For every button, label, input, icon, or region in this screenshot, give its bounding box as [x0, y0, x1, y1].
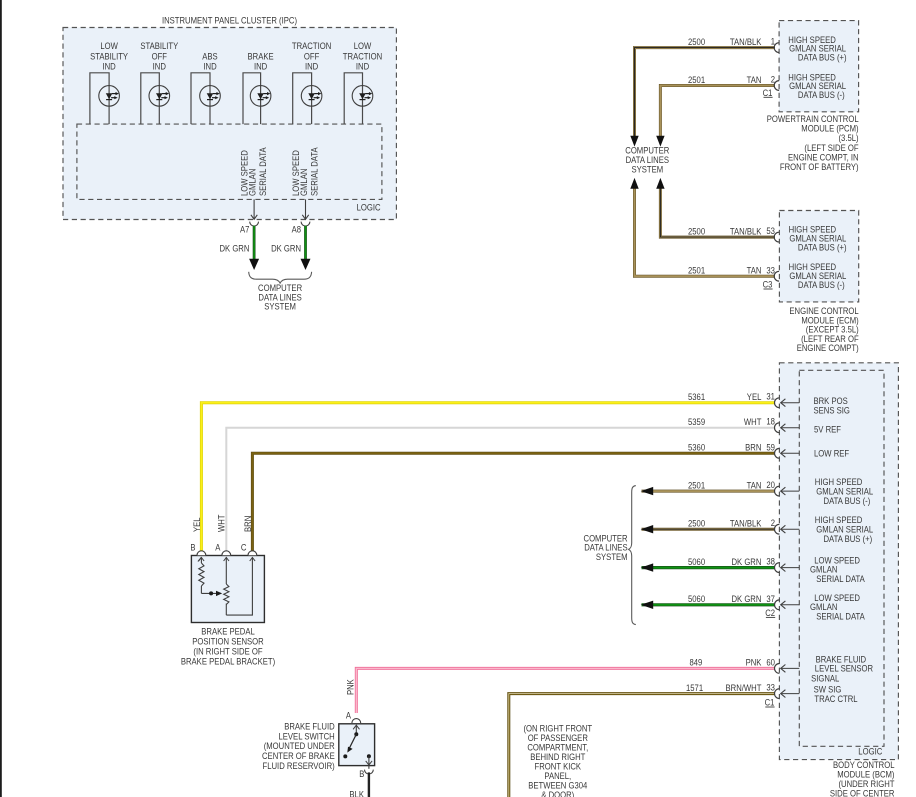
wire 2500 TAN/BLK high speed GMLAN to BCM pin 2	[641, 518, 800, 534]
svg-text:A7: A7	[240, 224, 249, 234]
svg-text:1: 1	[771, 37, 775, 47]
svg-text:DATA BUS (+): DATA BUS (+)	[798, 243, 847, 253]
switch contacts and lever	[343, 725, 372, 765]
label BRK POS SENS SIG (BCM pin 31)	[814, 396, 851, 416]
svg-text:2500: 2500	[688, 37, 705, 47]
svg-text:31: 31	[766, 392, 775, 402]
connector C1 label (PCM)	[763, 88, 773, 98]
label HIGH SPEED GMLAN SERIAL DATA BUS (-) (ECM pin 33)	[789, 262, 847, 290]
svg-text:GMLAN SERIAL: GMLAN SERIAL	[816, 525, 873, 535]
svg-text:C2: C2	[765, 608, 775, 618]
label YEL (vertical)	[192, 517, 202, 532]
svg-text:2501: 2501	[688, 266, 705, 276]
svg-text:ENGINE COMPT): ENGINE COMPT)	[797, 343, 859, 353]
svg-text:5359: 5359	[688, 417, 705, 427]
svg-text:LOGIC: LOGIC	[858, 747, 883, 757]
svg-text:POWERTRAIN CONTROL: POWERTRAIN CONTROL	[767, 114, 859, 124]
svg-text:TAN: TAN	[747, 266, 762, 276]
label HIGH SPEED GMLAN SERIAL DATA BUS (+) (PCM pin 1)	[788, 35, 846, 63]
wire 849 PNK brake fluid level switch to BCM pin 60	[356, 657, 799, 713]
svg-text:WHT: WHT	[217, 514, 227, 532]
label POWERTRAIN CONTROL MODULE (PCM) caption	[767, 114, 859, 172]
svg-text:TAN: TAN	[747, 75, 762, 85]
svg-text:DK GRN: DK GRN	[732, 594, 762, 604]
wire 5361 YEL brake pedal position sensor signal to BCM pin 31	[201, 392, 799, 551]
node COMPUTER DATA LINES SYSTEM (mid page)	[584, 533, 628, 562]
svg-text:COMPUTER: COMPUTER	[625, 146, 669, 156]
svg-text:SYSTEM: SYSTEM	[264, 301, 296, 311]
label HIGH SPEED GMLAN SERIAL DATA BUS (-) (PCM pin 2)	[788, 72, 846, 100]
wire 2501 TAN high speed GMLAN to BCM pin 20	[641, 480, 800, 496]
svg-text:IND: IND	[305, 61, 318, 71]
svg-text:2: 2	[771, 75, 775, 85]
svg-text:C3: C3	[763, 280, 773, 290]
svg-text:33: 33	[766, 683, 775, 693]
wire 2500 TAN/BLK from ECM pin 53 to computer data lines	[656, 178, 779, 242]
svg-text:BRN/WHT: BRN/WHT	[726, 683, 762, 693]
svg-text:TAN: TAN	[747, 480, 762, 490]
label LOW REF (BCM pin 59)	[814, 448, 850, 458]
svg-text:SERIAL DATA: SERIAL DATA	[816, 574, 865, 584]
wire 2500 TAN/BLK from PCM pin 1 to computer data lines	[630, 37, 779, 147]
svg-text:OFF: OFF	[152, 51, 168, 61]
svg-text:IND: IND	[356, 61, 369, 71]
svg-text:IND: IND	[153, 61, 166, 71]
svg-text:SENS SIG: SENS SIG	[814, 406, 851, 416]
svg-text:A: A	[215, 542, 220, 552]
svg-text:38: 38	[766, 557, 775, 567]
connector C1 label (BCM)	[765, 698, 775, 708]
wire DK GRN from A8 to COMPUTER DATA LINES SYSTEM	[271, 226, 310, 270]
label LOW SPEED GMLAN SERIAL DATA (left, vertical, IPC)	[240, 147, 269, 196]
module BCM BODY CONTROL MODULE outer box	[779, 363, 898, 760]
svg-text:59: 59	[766, 442, 775, 452]
border frame left edge	[0, 0, 2, 797]
svg-text:BRAKE FLUID: BRAKE FLUID	[284, 722, 335, 732]
svg-text:GMLAN: GMLAN	[810, 602, 837, 612]
svg-text:INSTRUMENT PANEL CLUSTER (IPC): INSTRUMENT PANEL CLUSTER (IPC)	[162, 15, 297, 25]
label LOW SPEED GMLAN SERIAL DATA (BCM pin 38)	[810, 556, 865, 585]
svg-text:TRACTION: TRACTION	[292, 41, 331, 51]
svg-text:DATA LINES: DATA LINES	[626, 155, 670, 165]
logic block inner dashed box of IPC	[77, 124, 382, 199]
svg-text:37: 37	[766, 594, 775, 604]
svg-text:5V REF: 5V REF	[814, 424, 842, 434]
svg-text:BRN: BRN	[745, 443, 761, 453]
label BRAKE FLUID LEVEL SENSOR SIGNAL (BCM pin 60)	[811, 654, 873, 683]
label WHT (vertical)	[217, 514, 227, 532]
svg-text:33: 33	[766, 265, 775, 275]
svg-text:LEVEL SWITCH: LEVEL SWITCH	[279, 731, 335, 741]
svg-text:DK GRN: DK GRN	[271, 244, 301, 254]
indicator lamp LOW STABILITY IND	[90, 41, 128, 124]
svg-text:SW SIG: SW SIG	[814, 684, 842, 694]
svg-text:& DOOR): & DOOR)	[541, 790, 574, 797]
svg-text:5361: 5361	[688, 392, 705, 402]
brace COMPUTER DATA LINES SYSTEM (BCM side)	[629, 486, 636, 625]
label PNK (vertical)	[346, 679, 356, 695]
svg-text:849: 849	[690, 658, 703, 668]
label splice location (ON RIGHT FRONT OF PASSENGER COMPARTMENT...)	[523, 724, 592, 797]
wiper arrow and junction of potentiometer	[201, 591, 222, 596]
svg-text:18: 18	[766, 417, 775, 427]
wire pin A8 exit from IPC logic	[292, 199, 310, 234]
label BRAKE PEDAL POSITION SENSOR caption	[181, 627, 275, 667]
module PCM POWERTRAIN CONTROL MODULE box	[779, 21, 859, 112]
svg-text:A: A	[346, 711, 351, 721]
svg-text:2: 2	[771, 518, 775, 528]
svg-text:5060: 5060	[688, 594, 705, 604]
svg-text:DATA BUS (-): DATA BUS (-)	[824, 496, 871, 506]
wire 2501 TAN from ECM pin 33 to computer data lines	[630, 178, 779, 281]
label BRN (vertical)	[243, 516, 253, 532]
svg-text:LEVEL SENSOR: LEVEL SENSOR	[815, 664, 873, 674]
label ENGINE CONTROL MODULE (ECM) caption	[789, 306, 859, 353]
svg-text:BRAKE PEDAL: BRAKE PEDAL	[201, 627, 255, 637]
svg-text:DK GRN: DK GRN	[220, 244, 250, 254]
resistor R2 potentiometer element (pin A branch)	[224, 557, 229, 615]
svg-text:MODULE (PCM): MODULE (PCM)	[801, 124, 858, 134]
svg-text:OFF: OFF	[304, 51, 320, 61]
indicator lamp LOW TRACTION IND	[343, 41, 382, 124]
svg-text:BRAKE PEDAL BRACKET): BRAKE PEDAL BRACKET)	[181, 656, 275, 666]
svg-text:STABILITY: STABILITY	[140, 41, 178, 51]
svg-text:LOW: LOW	[100, 41, 118, 51]
svg-text:C1: C1	[763, 88, 773, 98]
svg-text:C: C	[241, 542, 247, 552]
svg-text:2501: 2501	[688, 480, 705, 490]
svg-text:B: B	[359, 769, 364, 779]
svg-text:YEL: YEL	[192, 517, 202, 532]
module U1 INSTRUMENT PANEL CLUSTER (IPC) outer box	[63, 28, 396, 220]
svg-text:C1: C1	[765, 698, 775, 708]
svg-text:BRAKE: BRAKE	[248, 51, 274, 61]
indicator lamp STABILITY OFF IND	[140, 41, 178, 124]
label LOW SPEED GMLAN SERIAL DATA (right, vertical, IPC)	[291, 147, 320, 196]
connector pin A of brake pedal position sensor	[215, 542, 230, 555]
wire pin A7 exit from IPC logic	[240, 199, 259, 234]
svg-text:SERIAL DATA: SERIAL DATA	[310, 147, 320, 196]
svg-text:POSITION SENSOR: POSITION SENSOR	[192, 637, 264, 647]
svg-text:LOGIC: LOGIC	[357, 203, 382, 213]
module ECM ENGINE CONTROL MODULE box	[779, 211, 858, 302]
label BRAKE FLUID LEVEL SWITCH caption	[262, 722, 335, 771]
wire 5060 DK GRN low speed GMLAN to BCM pin 37	[641, 594, 800, 610]
svg-text:TRACTION: TRACTION	[343, 51, 382, 61]
wire bottom link to pin C inside sensor	[226, 557, 255, 615]
svg-text:LOW REF: LOW REF	[814, 448, 850, 458]
svg-text:GMLAN SERIAL: GMLAN SERIAL	[816, 487, 873, 497]
label LOW SPEED GMLAN SERIAL DATA (BCM pin 37)	[810, 593, 865, 622]
svg-text:(LEFT SIDE OF: (LEFT SIDE OF	[804, 143, 859, 153]
svg-text:FRONT OF BATTERY): FRONT OF BATTERY)	[780, 162, 859, 172]
svg-text:TAN/BLK: TAN/BLK	[730, 519, 762, 529]
svg-text:WHT: WHT	[744, 417, 762, 427]
svg-text:DATA BUS (+): DATA BUS (+)	[824, 534, 873, 544]
svg-text:DATA BUS (+): DATA BUS (+)	[798, 52, 847, 62]
svg-text:HIGH SPEED: HIGH SPEED	[815, 477, 863, 487]
svg-text:5360: 5360	[688, 443, 705, 453]
svg-text:HIGH SPEED: HIGH SPEED	[815, 515, 863, 525]
wire BLK from switch pin B (to ground, off page)	[349, 766, 369, 797]
node COMPUTER DATA LINES SYSTEM (between PCM and ECM)	[625, 146, 669, 175]
node COMPUTER DATA LINES SYSTEM (bottom of IPC)	[258, 283, 302, 311]
indicator lamp TRACTION OFF IND	[292, 41, 331, 124]
indicator lamp BRAKE IND	[243, 51, 274, 124]
svg-text:TRAC CTRL: TRAC CTRL	[814, 694, 857, 704]
svg-text:IND: IND	[102, 61, 115, 71]
svg-text:2501: 2501	[688, 75, 705, 85]
wire 5360 BRN low reference to BCM pin 59	[252, 442, 799, 550]
brace under A7/A8 wires	[249, 272, 312, 283]
svg-text:(3.5L): (3.5L)	[839, 133, 859, 143]
svg-text:GMLAN: GMLAN	[810, 565, 837, 575]
wire 2501 TAN from PCM pin 2 to computer data lines	[656, 75, 779, 147]
wire DK GRN from A7 to COMPUTER DATA LINES SYSTEM	[220, 226, 260, 270]
wire 1571 BRN/WHT traction control switch signal to BCM pin 33	[509, 683, 800, 797]
svg-text:SERIAL DATA: SERIAL DATA	[816, 612, 865, 622]
connector C2 label (BCM)	[765, 608, 775, 618]
label 5V REF (BCM pin 18)	[814, 424, 842, 434]
switch S1 BRAKE FLUID LEVEL SWITCH box	[339, 724, 375, 766]
svg-text:TAN/BLK: TAN/BLK	[730, 37, 762, 47]
svg-text:CENTER OF BRAKE: CENTER OF BRAKE	[262, 751, 335, 761]
svg-text:(IN RIGHT SIDE OF: (IN RIGHT SIDE OF	[193, 646, 263, 656]
label SW SIG TRAC CTRL (BCM pin 33)	[814, 684, 858, 704]
label HIGH SPEED GMLAN SERIAL DATA BUS (+) (ECM pin 53)	[789, 224, 847, 252]
svg-text:DATA BUS (-): DATA BUS (-)	[798, 90, 845, 100]
svg-text:2500: 2500	[688, 519, 705, 529]
svg-text:DATA BUS (-): DATA BUS (-)	[798, 280, 845, 290]
svg-text:PNK: PNK	[746, 658, 762, 668]
svg-text:BLK: BLK	[349, 789, 364, 797]
svg-text:5060: 5060	[688, 557, 705, 567]
label BODY CONTROL MODULE (BCM) caption	[830, 760, 895, 797]
wire 5359 WHT 5V reference to BCM pin 18	[226, 417, 799, 551]
svg-text:GMLAN: GMLAN	[248, 169, 258, 196]
svg-text:TAN/BLK: TAN/BLK	[730, 227, 762, 237]
svg-text:DK GRN: DK GRN	[732, 557, 762, 567]
sensor B24 BRAKE PEDAL POSITION SENSOR box	[191, 556, 264, 623]
svg-text:SYSTEM: SYSTEM	[596, 552, 628, 562]
svg-text:LOW: LOW	[354, 41, 372, 51]
label LOGIC (BCM)	[858, 747, 883, 757]
svg-text:YEL: YEL	[747, 392, 762, 402]
label INSTRUMENT PANEL CLUSTER (IPC)	[162, 15, 297, 25]
connector pin B of brake fluid level switch	[359, 769, 373, 779]
connector pin C of brake pedal position sensor	[241, 542, 257, 555]
svg-text:1571: 1571	[686, 683, 703, 693]
svg-text:GMLAN: GMLAN	[299, 169, 309, 196]
svg-text:SERIAL DATA: SERIAL DATA	[258, 147, 268, 196]
svg-text:SIGNAL: SIGNAL	[811, 674, 839, 684]
svg-text:20: 20	[766, 480, 775, 490]
connector pin B of brake pedal position sensor	[190, 542, 205, 555]
svg-text:BRN: BRN	[243, 516, 253, 532]
label LOGIC (IPC)	[357, 203, 382, 213]
svg-text:IND: IND	[203, 61, 216, 71]
svg-text:ENGINE COMPT, IN: ENGINE COMPT, IN	[788, 152, 859, 162]
logic block inner dashed box of BCM	[799, 370, 884, 746]
svg-text:FLUID RESERVOIR): FLUID RESERVOIR)	[263, 761, 335, 771]
resistor R1 potentiometer element (pin B branch)	[198, 557, 204, 593]
svg-text:IND: IND	[254, 61, 267, 71]
svg-text:SYSTEM: SYSTEM	[631, 165, 663, 175]
svg-text:A8: A8	[292, 224, 301, 234]
svg-text:ABS: ABS	[202, 51, 218, 61]
label HIGH SPEED GMLAN SERIAL DATA BUS (-) (BCM pin 20)	[815, 477, 873, 506]
svg-text:STABILITY: STABILITY	[90, 51, 128, 61]
connector C3 label (ECM)	[763, 280, 773, 290]
svg-text:(MOUNTED UNDER: (MOUNTED UNDER	[264, 741, 335, 751]
connector pin A of brake fluid level switch	[346, 711, 361, 724]
svg-text:2500: 2500	[688, 227, 705, 237]
svg-text:PNK: PNK	[346, 679, 356, 695]
svg-text:53: 53	[766, 226, 775, 236]
svg-text:BRK POS: BRK POS	[814, 396, 848, 406]
svg-text:60: 60	[766, 657, 775, 667]
svg-text:SIDE OF CENTER: SIDE OF CENTER	[830, 788, 895, 797]
label HIGH SPEED GMLAN SERIAL DATA BUS (+) (BCM pin 2)	[815, 515, 873, 544]
svg-text:B: B	[190, 542, 195, 552]
indicator lamp ABS IND	[191, 51, 220, 124]
wire 5060 DK GRN low speed GMLAN to BCM pin 38	[641, 557, 800, 573]
